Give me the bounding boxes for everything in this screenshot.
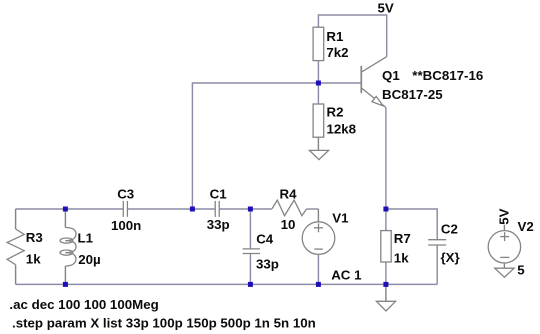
svg-text:R1: R1 [326, 29, 344, 44]
svg-text:Q1: Q1 [382, 68, 400, 83]
svg-text:C4: C4 [256, 232, 274, 247]
svg-text:AC 1: AC 1 [331, 268, 362, 283]
svg-text:R7: R7 [394, 231, 411, 246]
svg-text:V1: V1 [332, 211, 349, 226]
svg-text:BC817-25: BC817-25 [382, 87, 443, 102]
svg-text:1k: 1k [26, 251, 41, 266]
svg-text:C2: C2 [441, 222, 458, 237]
svg-text:33p: 33p [256, 257, 279, 272]
svg-text:100n: 100n [111, 218, 141, 233]
svg-text:5V: 5V [497, 208, 512, 224]
svg-text:R4: R4 [280, 186, 298, 201]
svg-text:.ac dec 100 100 100Meg: .ac dec 100 100 100Meg [9, 297, 158, 312]
svg-text:33p: 33p [207, 217, 230, 232]
svg-text:C1: C1 [210, 186, 228, 201]
svg-text:5: 5 [517, 263, 525, 278]
svg-text:10: 10 [281, 217, 296, 232]
svg-text:**BC817-16: **BC817-16 [412, 68, 483, 83]
svg-text:C3: C3 [117, 186, 134, 201]
svg-text:V2: V2 [518, 219, 534, 234]
svg-text:7k2: 7k2 [326, 45, 348, 60]
svg-text:12k8: 12k8 [327, 122, 357, 137]
svg-text:5V: 5V [378, 1, 394, 16]
svg-text:{X}: {X} [441, 250, 460, 265]
svg-text:.step param X list 33p 100p 15: .step param X list 33p 100p 150p 500p 1n… [12, 315, 316, 330]
svg-text:R2: R2 [327, 104, 344, 119]
svg-text:1k: 1k [394, 250, 409, 265]
svg-text:R3: R3 [26, 230, 43, 245]
svg-text:20µ: 20µ [78, 252, 100, 267]
svg-text:L1: L1 [78, 231, 94, 246]
